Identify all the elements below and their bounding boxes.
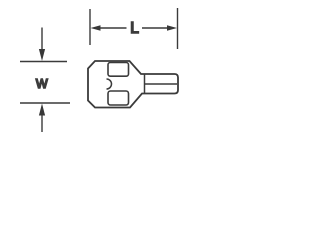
dimension L right extension line — [177, 8, 179, 49]
crimp window top — [108, 63, 129, 77]
dimension W top extension line — [20, 61, 67, 63]
svg-text:L: L — [130, 20, 139, 37]
dimension W bottom arrow — [39, 104, 45, 133]
dimension W bottom extension line — [20, 102, 70, 104]
wire entry arc — [107, 79, 112, 89]
dimension L right arrow and line — [142, 25, 177, 31]
dimension L left arrow and line — [91, 25, 127, 31]
terminal body outline — [88, 61, 178, 108]
svg-text:W: W — [36, 77, 48, 91]
dimension W top arrow — [39, 28, 45, 62]
crimp window bottom — [108, 91, 129, 105]
dimension L left extension line — [89, 9, 91, 45]
tab shoulder line — [144, 74, 146, 94]
tab center line — [145, 83, 178, 85]
